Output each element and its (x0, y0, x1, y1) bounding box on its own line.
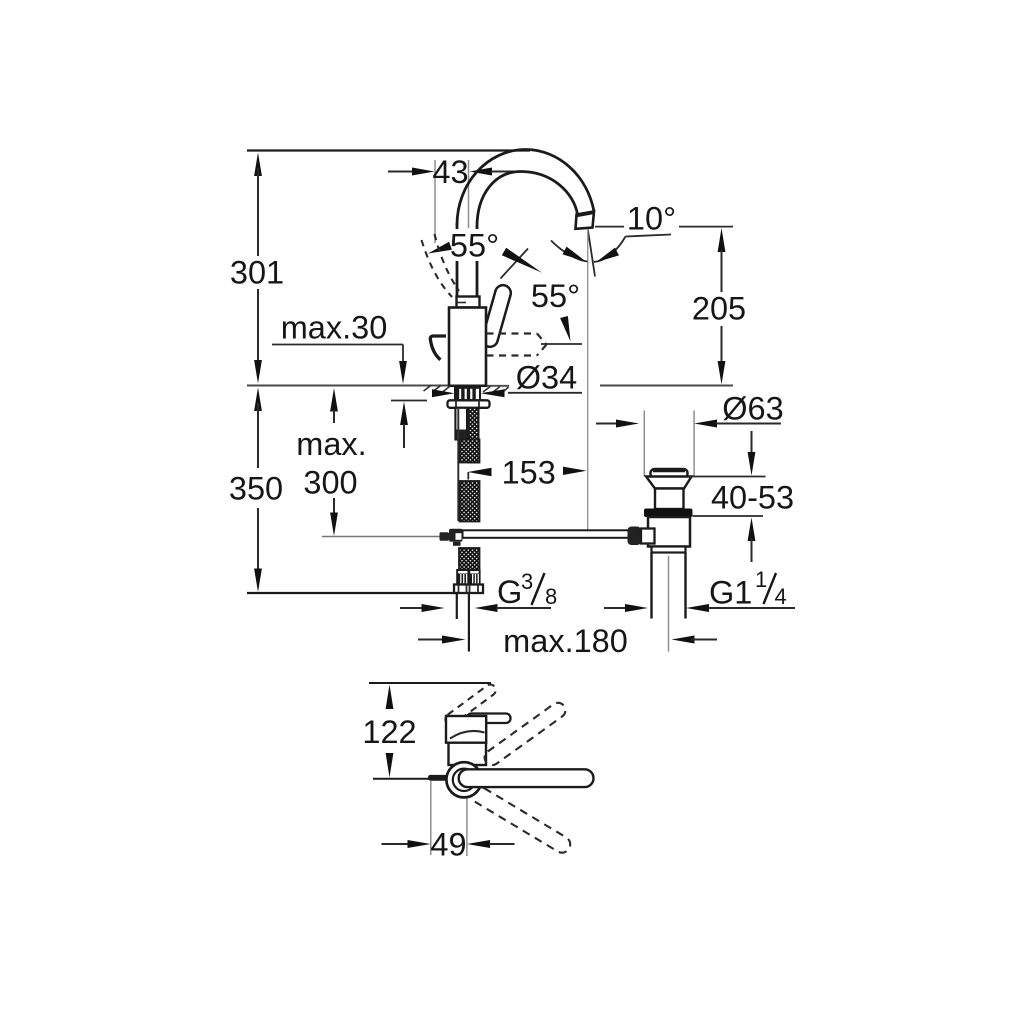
handle lever open dashed cap1 (537, 334, 547, 345)
counter underside line (391, 400, 427, 402)
max.30 drop line (402, 345, 404, 364)
dia34 left arrow (432, 389, 455, 397)
label 55deg swivel halo (448, 229, 502, 261)
spout inner curve (477, 172, 578, 228)
dashed rotated spout edge 1 (422, 240, 453, 297)
max.30 arrow tail (403, 424, 405, 448)
handle lever open dashed bottom (487, 354, 538, 356)
front view body lower (449, 743, 487, 765)
dim 301 line upper (257, 168, 259, 256)
rod clamp knob (628, 527, 642, 546)
dim 205 lower arrow (718, 361, 726, 385)
front view joint inner circle (453, 769, 475, 791)
svg-text:205: 205 (692, 291, 746, 327)
washer tick left (455, 401, 457, 408)
spout pipe right edge (476, 226, 479, 297)
55deg lever down arrow (560, 316, 570, 342)
dim 49 left arrow (408, 840, 431, 848)
shank thread bar 3 (467, 388, 470, 400)
max180 dim line left (418, 639, 443, 641)
collar detail line (458, 302, 467, 304)
G1-1/4 dim line right (708, 607, 795, 609)
front view dashed lever up-right (482, 700, 569, 768)
dim 49 line right (489, 843, 515, 845)
hose bottom reference line (247, 592, 455, 594)
dia63 extension line left (643, 411, 645, 477)
deck hatch tick L1 (424, 385, 432, 391)
G3/8 nut (454, 585, 483, 594)
handle lever open dashed top (487, 332, 538, 334)
10deg angle arc left (551, 241, 588, 262)
svg-text:4: 4 (775, 584, 787, 609)
svg-text:3: 3 (521, 569, 533, 594)
dim 350 line lower (257, 508, 259, 574)
front view top reference line (369, 682, 491, 684)
drain neck (655, 489, 684, 510)
40-53 down arrow (748, 452, 756, 476)
rod coupling body (449, 529, 463, 542)
pull rod vertical (457, 408, 459, 521)
dim 43 line left (388, 171, 414, 173)
pull rod tube (455, 408, 467, 440)
horseshoe washer (448, 400, 490, 408)
svg-text:49: 49 (430, 827, 466, 863)
front view body upper (446, 716, 486, 743)
dim 49 extension left (430, 781, 432, 855)
dim 122 lower arrow (386, 753, 394, 778)
svg-text:43: 43 (432, 154, 468, 190)
aerator top edge (577, 213, 594, 216)
40-53 upper tail (751, 431, 753, 455)
svg-text:153: 153 (502, 455, 556, 491)
dia63 left arrow (616, 420, 639, 428)
max180 right arrow (672, 636, 695, 644)
shank thread bar 1 (456, 388, 459, 400)
G1-1/4 right arrow (686, 604, 709, 612)
max300 upper tail (333, 410, 335, 423)
dim 122 upper arrow (386, 685, 394, 710)
G3/8 dim line right (496, 607, 551, 609)
nut facet line 2 (466, 585, 468, 593)
dim 49 line left (382, 843, 409, 845)
dim 350 lower arrow (254, 569, 262, 593)
max.30 up arrow below counter (400, 402, 408, 426)
max300 down arrow (330, 513, 338, 537)
horizontal pull rod (463, 530, 630, 538)
countertop line mid (486, 385, 509, 387)
lever axis extension line (501, 249, 529, 279)
open lever leader line (541, 343, 582, 345)
svg-text:10°: 10° (627, 201, 676, 237)
mounting shank (455, 388, 480, 401)
svg-text:301: 301 (230, 255, 284, 291)
dim 205 lower tail (721, 326, 723, 362)
dia63 dim line right (716, 423, 781, 425)
aerator outlet (576, 212, 595, 229)
svg-text:1: 1 (755, 567, 767, 592)
G3/8 left arrow (422, 604, 445, 612)
G1-1/4 dim line left (604, 607, 627, 609)
svg-text:40-53: 40-53 (711, 480, 794, 516)
rod coupling tab (453, 542, 461, 546)
pull rod reference line (322, 536, 440, 538)
svg-text:Ø63: Ø63 (722, 391, 783, 427)
G1 fraction slash (764, 573, 777, 604)
pop-up rod knob hook (430, 336, 446, 360)
shank thread bar 2 (461, 388, 464, 400)
max300 lower tail (333, 498, 335, 514)
hose connector right ribs (470, 574, 479, 585)
max180 dim line right (691, 639, 717, 641)
handle collar (457, 297, 480, 308)
10deg reference line left (595, 226, 624, 228)
drain tailpipe right edge (684, 553, 686, 619)
rod coupling inner (456, 533, 462, 540)
spout tip vertical extension line (587, 229, 589, 533)
dim 350 upper arrow (254, 388, 262, 412)
dim 205 upper arrow (718, 228, 726, 252)
55deg swivel arrow (428, 242, 452, 254)
dim 43 extension line left (434, 160, 436, 243)
10deg arc leader (626, 235, 672, 237)
handle lever closed position (480, 283, 512, 348)
dim 49 extension right (466, 799, 468, 857)
drain body step (652, 547, 686, 553)
handle lever open dashed cap2 (537, 345, 547, 356)
dim 153 right arrow (563, 467, 587, 475)
spout pipe left edge (456, 223, 459, 297)
G3/8 dim line left (400, 607, 423, 609)
countertop line left (247, 385, 449, 387)
svg-text:max.30: max.30 (281, 310, 388, 346)
10deg angle arc right (594, 237, 626, 263)
deck hatch tick L2 (433, 385, 441, 391)
hose connector left ribs (458, 574, 468, 585)
40-53 up arrow (748, 518, 756, 542)
supply hose segment 3 (460, 481, 480, 522)
G1-1/4 left arrow (625, 604, 648, 612)
10deg reference line right (679, 226, 733, 228)
rod coupling small block (440, 532, 450, 541)
G3/8 nipple right edge / max180 extension (468, 593, 470, 652)
front view lever reference line (373, 778, 431, 780)
svg-text:Ø34: Ø34 (516, 360, 577, 396)
washer tick right (478, 401, 480, 408)
dia63 dim line left (596, 423, 618, 425)
nut facet line 3 (469, 585, 471, 593)
pull rod tube end cap (456, 430, 467, 440)
dim 350 line upper (257, 403, 259, 468)
dim 43 left arrow (412, 168, 435, 176)
drain axis line (668, 556, 670, 652)
deck hatch tick R3 (502, 387, 509, 393)
G3/8 fraction slash (532, 573, 545, 605)
front view dashed raised lever (443, 682, 498, 727)
top reference line (spout height) (247, 149, 530, 151)
supply hose segment 4 (459, 548, 480, 571)
svg-text:55°: 55° (531, 278, 580, 314)
svg-text:55°: 55° (450, 228, 499, 264)
dim 49 right arrow (467, 840, 490, 848)
dia34 right arrow (481, 389, 505, 397)
water stream line 10deg (588, 229, 595, 277)
svg-text:max.: max. (296, 426, 366, 462)
G3/8 right arrow (475, 604, 498, 612)
10deg arc arrow right (596, 248, 619, 263)
front view pull rod pin (428, 775, 448, 781)
front view solid lever (459, 769, 594, 787)
front view body dome curve (450, 731, 485, 739)
front view dashed lever down-right (469, 784, 573, 856)
drain flange (646, 477, 692, 489)
svg-text:G: G (497, 574, 522, 610)
deck hatch tick R1 (483, 386, 491, 392)
svg-text:122: 122 (362, 714, 416, 750)
40-53 bottom leader (693, 515, 764, 517)
svg-text:8: 8 (545, 584, 557, 609)
front view joint outer circle (446, 762, 481, 797)
dia34 leader line (508, 392, 582, 394)
svg-text:300: 300 (303, 465, 357, 501)
dim 301 line lower (257, 289, 259, 366)
svg-text:G1: G1 (709, 575, 752, 611)
max180 left arrow (442, 636, 466, 644)
drain tailpipe left edge (650, 553, 652, 619)
rod clamp block (641, 529, 655, 544)
G3/8 nipple left edge (456, 593, 458, 619)
dim 301 lower arrow (254, 360, 262, 384)
svg-text:max.180: max.180 (503, 623, 628, 659)
nut facet line 1 (458, 585, 460, 593)
front view lever bar (467, 714, 511, 724)
10deg arc arrow left (563, 247, 587, 262)
deck hatch tick L3 (443, 386, 451, 392)
deck hatch tick R2 (493, 387, 501, 393)
max300 up arrow (330, 388, 338, 412)
dim 153 tick (467, 472, 469, 480)
drain plug cap top edge (653, 469, 685, 472)
dim 301 upper arrow (254, 153, 262, 177)
dim 43 extension line right (pipe axis) (468, 160, 470, 228)
shank thread bar 4 (472, 388, 475, 400)
hose connector right (469, 570, 479, 585)
dim 43 right arrow (470, 168, 493, 176)
svg-text:350: 350 (229, 471, 283, 507)
dim 43 right tail (491, 171, 516, 173)
nut facet line 4 (477, 585, 479, 593)
countertop line right (600, 385, 733, 387)
supply hose segment 2 (460, 440, 480, 463)
40-53 top leader (688, 476, 766, 478)
supply hose segment 1 (468, 408, 479, 463)
spout outer curve (457, 150, 594, 226)
40-53 lower tail (751, 538, 753, 562)
max.30 down arrow (399, 361, 407, 384)
hose connector left (457, 570, 468, 585)
drain plug cap (651, 469, 688, 478)
dim 153 left arrow (468, 468, 492, 476)
drain body (648, 517, 690, 547)
55deg lever arrow upper (502, 248, 542, 273)
dashed rotated spout edge 2 (435, 234, 460, 291)
dim 205 upper tail (721, 250, 723, 292)
dia63 extension line right (693, 411, 695, 477)
dia63 right arrow (694, 420, 717, 428)
drain seal band (644, 509, 693, 518)
max.30 leader line (272, 344, 403, 346)
faucet body (449, 308, 486, 386)
